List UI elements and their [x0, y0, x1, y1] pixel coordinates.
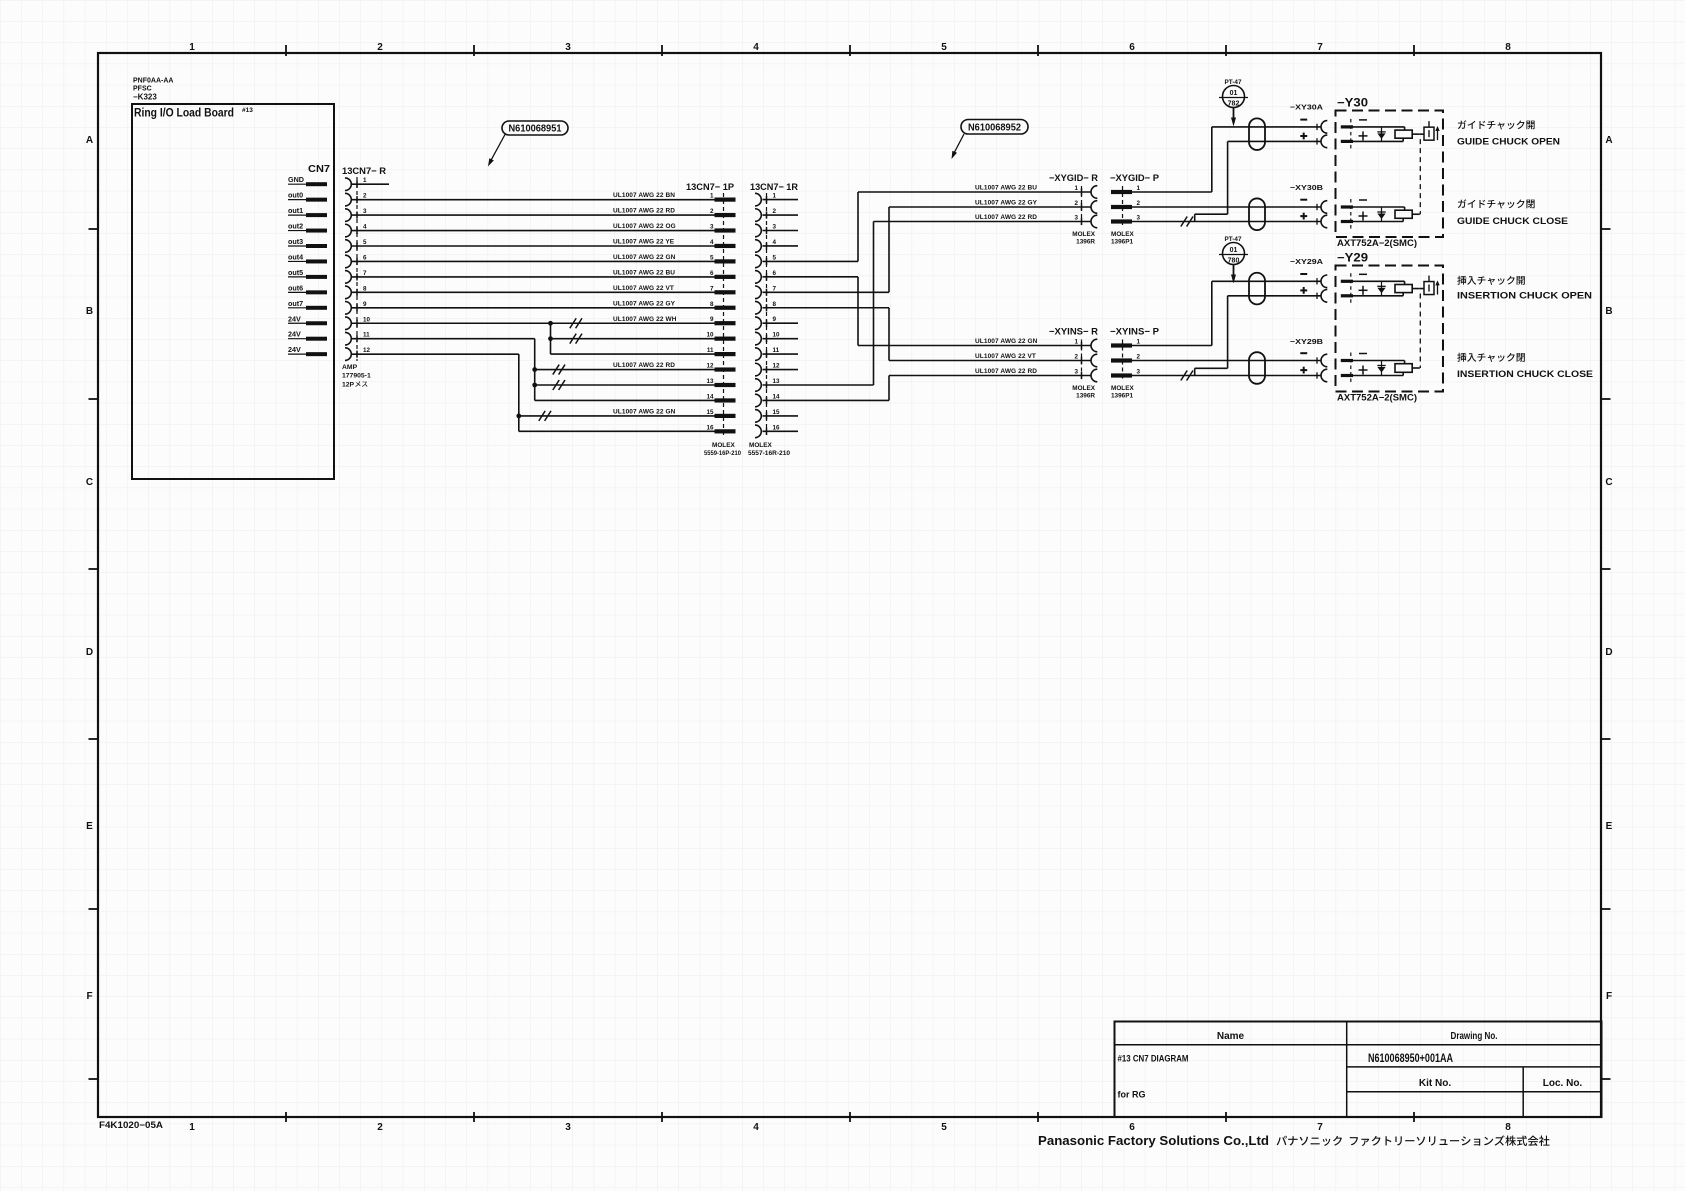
svg-text:PNF0AA-AA: PNF0AA-AA	[133, 78, 173, 85]
wire -XYINS-P pin1 to -Y29 coil A minus	[1132, 281, 1321, 345]
svg-text:12P: 12P	[342, 382, 355, 389]
valve -Y29 (AXT752A-2 SMC) dashed box	[1336, 253, 1444, 403]
svg-text:13CN7− 1R: 13CN7− 1R	[750, 182, 798, 193]
wire 13CN7-R pin5 to 13CN7-1P pin4 (UL1007 AWG22 YE)	[352, 239, 715, 247]
svg-text:F4K1020−05A: F4K1020−05A	[99, 1120, 164, 1130]
svg-text:−K323: −K323	[133, 93, 157, 102]
svg-text:UL1007 AWG 22 YE: UL1007 AWG 22 YE	[613, 239, 675, 246]
svg-text:AMP: AMP	[342, 364, 358, 371]
svg-text:out3: out3	[288, 237, 303, 246]
svg-text:5: 5	[363, 239, 367, 246]
label insertion chuck open	[1457, 276, 1592, 302]
svg-text:E: E	[86, 821, 93, 832]
svg-text:1: 1	[1074, 339, 1078, 346]
svg-text:6: 6	[1129, 1122, 1135, 1133]
svg-text:#13 CN7 DIAGRAM: #13 CN7 DIAGRAM	[1118, 1054, 1189, 1064]
svg-text:C: C	[86, 477, 93, 488]
cable -XY29A	[1249, 257, 1327, 304]
svg-text:4: 4	[710, 239, 714, 246]
svg-text:1396R: 1396R	[1076, 239, 1095, 246]
svg-text:1: 1	[189, 1122, 195, 1133]
wire 13CN7-1R pin6 to -XYINS-R pin1 (UL1007 AWG22 GN)	[763, 277, 1091, 346]
wire 13CN7-R pin12 feed	[352, 353, 519, 355]
svg-text:Kit No.: Kit No.	[1419, 1078, 1451, 1089]
svg-text:UL1007 AWG 22 RD: UL1007 AWG 22 RD	[975, 368, 1037, 375]
svg-text:out1: out1	[288, 206, 303, 215]
svg-text:INSERTION CHUCK CLOSE: INSERTION CHUCK CLOSE	[1457, 369, 1594, 380]
svg-text:2: 2	[377, 42, 383, 53]
svg-text:2: 2	[377, 1122, 383, 1133]
svg-text:3: 3	[773, 224, 777, 231]
svg-text:GUIDE CHUCK OPEN: GUIDE CHUCK OPEN	[1457, 137, 1560, 148]
svg-text:Drawing No.: Drawing No.	[1451, 1031, 1498, 1042]
svg-text:out0: out0	[288, 191, 303, 200]
callout PT-47 01/780	[1219, 236, 1248, 284]
svg-text:3: 3	[565, 42, 571, 53]
svg-text:01: 01	[1230, 90, 1238, 97]
svg-text:782: 782	[1228, 101, 1240, 108]
svg-text:10: 10	[706, 332, 714, 339]
wire -XYGID-P pin3 (+24V) to -Y30 coils plus	[1132, 141, 1321, 226]
svg-text:out7: out7	[288, 299, 303, 308]
svg-text:4: 4	[363, 224, 367, 231]
svg-text:24V: 24V	[288, 345, 301, 354]
svg-text:2: 2	[1074, 354, 1078, 361]
mech link -Y30	[1419, 139, 1421, 214]
svg-text:A: A	[86, 135, 93, 146]
svg-text:Panasonic Factory Solutions Co: Panasonic Factory Solutions Co.,Ltd	[1038, 1134, 1269, 1148]
svg-text:CN7: CN7	[308, 163, 330, 175]
wire 13CN7-R pin11 feed	[352, 338, 535, 340]
svg-text:13CN7− R: 13CN7− R	[342, 166, 386, 177]
svg-text:24V: 24V	[288, 330, 301, 339]
svg-text:5: 5	[710, 254, 714, 261]
svg-text:24V: 24V	[288, 314, 301, 323]
svg-text:MOLEX: MOLEX	[1111, 385, 1134, 392]
svg-text:9: 9	[773, 316, 777, 323]
solenoid coil -Y29 A (insertion chuck open)	[1341, 273, 1440, 304]
svg-text:−XYINS− P: −XYINS− P	[1110, 327, 1160, 338]
svg-text:N610068950+001AA: N610068950+001AA	[1368, 1051, 1453, 1065]
svg-text:3: 3	[710, 224, 714, 231]
svg-text:780: 780	[1228, 258, 1240, 265]
svg-text:8: 8	[363, 285, 367, 292]
svg-text:3: 3	[1074, 215, 1078, 222]
wire 13CN7-1R pin9 stub	[763, 322, 799, 324]
wire 13CN7-R pin1 stub	[352, 183, 389, 185]
svg-text:−XYGID− R: −XYGID− R	[1049, 173, 1098, 184]
connector -XYINS-P (MOLEX 1396P1)	[1110, 327, 1160, 400]
title block	[1115, 1022, 1602, 1118]
svg-text:2: 2	[1137, 200, 1141, 207]
svg-text:16: 16	[773, 424, 781, 431]
svg-text:PFSC: PFSC	[133, 86, 152, 93]
solenoid coil -Y30 B (guide chuck close)	[1341, 199, 1420, 230]
svg-text:UL1007 AWG 22 BU: UL1007 AWG 22 BU	[613, 269, 675, 276]
svg-text:6: 6	[363, 254, 367, 261]
svg-text:Name: Name	[1217, 1031, 1245, 1042]
svg-text:GND: GND	[288, 175, 304, 184]
wire 13CN7-R pin4 to 13CN7-1P pin3 (UL1007 AWG22 OG)	[352, 223, 715, 231]
wire 13CN7-R pin2 to 13CN7-1P pin1 (UL1007 AWG22 BN)	[352, 192, 715, 200]
svg-text:B: B	[86, 306, 93, 317]
svg-text:15: 15	[706, 409, 714, 416]
svg-text:11: 11	[773, 347, 780, 354]
svg-text:MOLEX: MOLEX	[1072, 385, 1095, 392]
svg-text:D: D	[1605, 647, 1612, 658]
svg-text:9: 9	[363, 301, 367, 308]
svg-text:13: 13	[706, 378, 714, 385]
wire 13CN7-R pin9 to 13CN7-1P pin8 (UL1007 AWG22 GY)	[352, 300, 715, 308]
connector -XYGID-P (MOLEX 1396P1)	[1110, 173, 1160, 246]
svg-text:7: 7	[1317, 42, 1323, 53]
svg-text:10: 10	[363, 316, 371, 323]
svg-text:3: 3	[363, 208, 367, 215]
svg-text:8: 8	[1505, 42, 1511, 53]
svg-text:2: 2	[710, 208, 714, 215]
cable -XY29B	[1249, 337, 1327, 384]
svg-text:B: B	[1605, 306, 1612, 317]
wire 13CN7-1R pin13 to -XYGID-R pin3 (UL1007 AWG22 RD)	[763, 214, 1091, 385]
svg-text:UL1007 AWG 22 VT: UL1007 AWG 22 VT	[975, 353, 1036, 360]
wire -XYGID-P pin1 to -Y30 coil A minus	[1132, 127, 1321, 192]
svg-text:12: 12	[706, 363, 714, 370]
wire 13CN7-1R pin8 to -XYINS-R pin2 (UL1007 AWG22 VT)	[763, 308, 1091, 361]
svg-text:8: 8	[710, 301, 714, 308]
svg-text:1396P1: 1396P1	[1111, 239, 1133, 246]
label insertion chuck close	[1457, 353, 1594, 380]
svg-text:4: 4	[753, 42, 759, 53]
wire 13CN7-1R pin3 stub	[763, 230, 799, 232]
svg-text:4: 4	[773, 239, 777, 246]
svg-text:13: 13	[773, 378, 781, 385]
svg-text:MOLEX: MOLEX	[749, 442, 772, 449]
label guide chuck close	[1457, 199, 1569, 227]
wire 13CN7-1R pin16 stub	[763, 430, 799, 432]
svg-text:11: 11	[707, 347, 714, 354]
jumper 24V net C (1P pins 15-16)	[516, 354, 714, 431]
svg-text:2: 2	[773, 208, 777, 215]
svg-text:Loc. No.: Loc. No.	[1543, 1078, 1583, 1089]
svg-text:F: F	[1606, 991, 1612, 1002]
svg-text:12: 12	[363, 347, 371, 354]
svg-text:1: 1	[773, 193, 777, 200]
svg-text:1396R: 1396R	[1076, 393, 1095, 400]
svg-text:10: 10	[773, 332, 781, 339]
svg-text:177905-1: 177905-1	[342, 373, 371, 380]
svg-text:−XYINS− R: −XYINS− R	[1049, 327, 1098, 338]
connector -XYINS-R (MOLEX 1396R)	[1049, 327, 1098, 400]
svg-text:UL1007 AWG 22 BU: UL1007 AWG 22 BU	[975, 185, 1037, 192]
wire 13CN7-1R pin2 stub	[763, 214, 799, 216]
svg-text:6: 6	[773, 270, 777, 277]
svg-text:1: 1	[363, 177, 367, 184]
callout N610068951	[488, 121, 568, 167]
svg-text:INSERTION CHUCK OPEN: INSERTION CHUCK OPEN	[1457, 291, 1592, 302]
svg-text:MOLEX: MOLEX	[1072, 231, 1095, 238]
svg-text:AXT752A−2(SMC): AXT752A−2(SMC)	[1337, 238, 1417, 248]
svg-text:N610068951: N610068951	[509, 124, 562, 135]
wire -XYINS-P pin2 to -Y29 coil B minus	[1132, 360, 1321, 362]
svg-text:2: 2	[1137, 354, 1141, 361]
callout PT-47 01/782	[1219, 79, 1248, 127]
svg-text:3: 3	[1074, 369, 1078, 376]
svg-text:1: 1	[1137, 185, 1141, 192]
solenoid coil -Y29 B (insertion chuck close)	[1341, 353, 1420, 384]
connector -XYGID-R (MOLEX 1396R)	[1049, 173, 1098, 246]
svg-text:N610068952: N610068952	[968, 123, 1021, 134]
svg-text:4: 4	[753, 1122, 759, 1133]
svg-text:16: 16	[706, 424, 714, 431]
svg-text:−XYGID− P: −XYGID− P	[1110, 173, 1160, 184]
jumper 24V net B (1P pins 12-14)	[532, 339, 714, 401]
svg-text:−XY29A: −XY29A	[1290, 257, 1324, 266]
svg-text:9: 9	[710, 316, 714, 323]
board -K323 Ring I/O Load Board #13	[132, 78, 334, 480]
svg-text:5: 5	[773, 254, 777, 261]
cable -XY30B	[1249, 183, 1327, 230]
svg-text:13CN7− 1P: 13CN7− 1P	[686, 182, 735, 193]
wire 13CN7-1R pin14 to -XYINS-R pin3 (UL1007 AWG22 RD)	[763, 368, 1091, 400]
svg-text:1: 1	[710, 193, 714, 200]
wire 13CN7-1R pin15 stub	[763, 415, 799, 417]
svg-text:6: 6	[1129, 42, 1135, 53]
svg-text:UL1007 AWG 22 OG: UL1007 AWG 22 OG	[613, 223, 676, 230]
svg-text:#13: #13	[242, 107, 253, 114]
svg-text:UL1007 AWG 22 GN: UL1007 AWG 22 GN	[613, 408, 676, 415]
svg-text:3: 3	[1137, 215, 1141, 222]
wire 13CN7-1R pin4 stub	[763, 245, 799, 247]
svg-text:2: 2	[363, 193, 367, 200]
svg-text:6: 6	[710, 270, 714, 277]
svg-text:UL1007 AWG 22 RD: UL1007 AWG 22 RD	[975, 214, 1037, 221]
svg-text:Ring I/O Load Board: Ring I/O Load Board	[134, 106, 234, 120]
svg-text:7: 7	[363, 270, 367, 277]
label guide chuck open	[1457, 120, 1560, 147]
svg-text:MOLEX: MOLEX	[712, 442, 735, 449]
svg-text:UL1007 AWG 22 GY: UL1007 AWG 22 GY	[613, 300, 676, 307]
svg-text:12: 12	[773, 363, 781, 370]
wire 13CN7-1R pin5 to -XYGID-R pin1 (UL1007 AWG22 BU)	[763, 185, 1091, 262]
svg-text:−Y30: −Y30	[1337, 98, 1368, 110]
svg-text:1: 1	[1137, 339, 1141, 346]
svg-text:1: 1	[189, 42, 195, 53]
solenoid coil -Y30 A (guide chuck open)	[1341, 119, 1440, 149]
jumper 24V net A (1P pins 9-11)	[548, 323, 714, 354]
connector 13CN7-1P (MOLEX 5559-16P-210)	[686, 182, 741, 457]
wire 13CN7-1R pin11 stub	[763, 353, 799, 355]
callout N610068952	[952, 120, 1029, 160]
svg-text:8: 8	[1505, 1122, 1511, 1133]
svg-text:UL1007 AWG 22 GY: UL1007 AWG 22 GY	[975, 200, 1038, 207]
svg-text:out6: out6	[288, 283, 303, 292]
svg-text:D: D	[86, 647, 93, 658]
svg-text:AXT752A−2(SMC): AXT752A−2(SMC)	[1337, 393, 1417, 403]
svg-text:7: 7	[710, 285, 714, 292]
svg-text:UL1007 AWG 22 VT: UL1007 AWG 22 VT	[613, 285, 674, 292]
svg-text:F: F	[86, 991, 92, 1002]
wire -XYGID-P pin2 to -Y30 coil B minus	[1132, 206, 1321, 208]
svg-text:−Y29: −Y29	[1337, 253, 1368, 265]
svg-text:GUIDE CHUCK CLOSE: GUIDE CHUCK CLOSE	[1457, 216, 1569, 227]
wire -XYINS-P pin3 (+24V) to -Y29 coils plus	[1132, 296, 1321, 381]
svg-text:UL1007 AWG 22 RD: UL1007 AWG 22 RD	[613, 362, 675, 369]
cable -XY30A	[1249, 103, 1327, 150]
svg-text:E: E	[1606, 821, 1613, 832]
svg-text:for RG: for RG	[1118, 1090, 1146, 1100]
svg-text:2: 2	[1074, 200, 1078, 207]
svg-text:A: A	[1605, 135, 1612, 146]
svg-text:C: C	[1605, 477, 1612, 488]
svg-text:−XY30B: −XY30B	[1290, 183, 1324, 192]
svg-text:MOLEX: MOLEX	[1111, 231, 1134, 238]
svg-text:7: 7	[773, 285, 777, 292]
svg-text:3: 3	[1137, 369, 1141, 376]
connector 13CN7-1R (MOLEX 5557-16R-210)	[748, 182, 798, 457]
wire 13CN7-1R pin7 to -XYGID-R pin2 (UL1007 AWG22 GY)	[763, 200, 1091, 293]
svg-text:5: 5	[941, 1122, 947, 1133]
svg-text:out4: out4	[288, 252, 303, 261]
wire 13CN7-R pin3 to 13CN7-1P pin2 (UL1007 AWG22 RD)	[352, 208, 715, 216]
svg-text:−XY30A: −XY30A	[1290, 103, 1324, 112]
wire 13CN7-R pin7 to 13CN7-1P pin6 (UL1007 AWG22 BU)	[352, 269, 715, 277]
svg-text:5: 5	[941, 42, 947, 53]
svg-text:7: 7	[1317, 1122, 1323, 1133]
svg-text:5559-16P-210: 5559-16P-210	[704, 450, 741, 457]
svg-text:8: 8	[773, 301, 777, 308]
svg-text:UL1007 AWG 22 BN: UL1007 AWG 22 BN	[613, 192, 675, 199]
svg-text:UL1007 AWG 22 WH: UL1007 AWG 22 WH	[613, 316, 677, 323]
svg-text:5557-16R-210: 5557-16R-210	[748, 450, 791, 457]
svg-text:14: 14	[773, 393, 781, 400]
svg-text:11: 11	[363, 332, 370, 339]
svg-text:−XY29B: −XY29B	[1290, 337, 1324, 346]
wire 13CN7-1R pin1 stub	[763, 199, 799, 201]
wire 13CN7-1R pin10 stub	[763, 338, 799, 340]
wire 13CN7-R pin10 to 13CN7-1P pin9 (UL1007 AWG22 WH)	[352, 316, 715, 329]
svg-text:3: 3	[565, 1122, 571, 1133]
drawing format number F4K1020-05A	[99, 1120, 164, 1130]
svg-text:15: 15	[773, 409, 781, 416]
company name	[1038, 1134, 1550, 1148]
svg-text:out2: out2	[288, 222, 303, 231]
connector CN7 (board pins GND,out0-out7,24V)	[288, 163, 330, 356]
svg-text:1: 1	[1074, 185, 1078, 192]
svg-text:out5: out5	[288, 268, 303, 277]
connector 13CN7-R (AMP 177905-1 12P female)	[342, 166, 386, 389]
svg-text:1396P1: 1396P1	[1111, 393, 1133, 400]
wire 13CN7-R pin6 to 13CN7-1P pin5 (UL1007 AWG22 GN)	[352, 254, 715, 262]
valve -Y30 (AXT752A-2 SMC) dashed box	[1336, 98, 1444, 249]
mech link -Y29	[1419, 294, 1421, 368]
svg-text:UL1007 AWG 22 GN: UL1007 AWG 22 GN	[613, 254, 676, 261]
svg-text:UL1007 AWG 22 GN: UL1007 AWG 22 GN	[975, 338, 1038, 345]
svg-text:01: 01	[1230, 247, 1238, 254]
wire 13CN7-R pin8 to 13CN7-1P pin7 (UL1007 AWG22 VT)	[352, 285, 715, 293]
wire 13CN7-1R pin12 stub	[763, 369, 799, 371]
svg-text:UL1007 AWG 22 RD: UL1007 AWG 22 RD	[613, 208, 675, 215]
svg-text:14: 14	[706, 393, 714, 400]
